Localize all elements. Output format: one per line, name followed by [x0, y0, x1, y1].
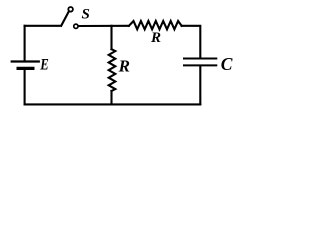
svg-text:R: R [150, 30, 161, 46]
svg-text:S: S [82, 6, 90, 22]
svg-text:C: C [221, 54, 233, 74]
svg-text:E: E [39, 56, 48, 74]
svg-text:R: R [118, 57, 130, 76]
